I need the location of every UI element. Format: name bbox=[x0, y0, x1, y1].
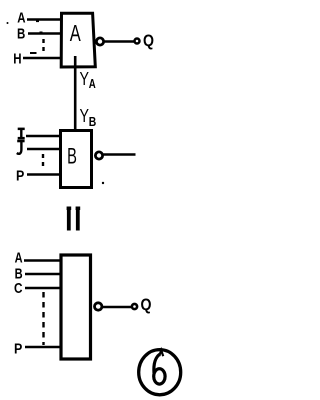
svg-text:C: C bbox=[14, 281, 23, 297]
wire Y connecting U1 bottom to U2 top bbox=[74, 56, 77, 139]
inverter bubble on U2 output bbox=[95, 152, 102, 159]
inverter bubble on U3 output bbox=[95, 303, 102, 310]
svg-text:Y: Y bbox=[80, 69, 90, 89]
wire input I to gate U2 bbox=[26, 135, 60, 138]
svg-text:B: B bbox=[17, 26, 25, 42]
svg-text:Y: Y bbox=[80, 106, 90, 126]
wire input P to gate U2 bbox=[27, 173, 60, 176]
ellipsis dashed line between J and P bbox=[42, 154, 44, 170]
svg-text:Q: Q bbox=[143, 31, 154, 50]
equivalence symbol bar 1 bbox=[67, 209, 71, 231]
ellipsis dashed line between C and P bbox=[42, 292, 44, 345]
equivalence symbol bar 2 bbox=[76, 209, 80, 231]
gate U3 box (combined) bbox=[61, 255, 91, 359]
wire input J to gate U2 bbox=[27, 148, 60, 151]
wire U3 output to Q node bbox=[103, 306, 132, 309]
svg-text:P: P bbox=[14, 342, 23, 358]
svg-text:P: P bbox=[16, 169, 25, 185]
svg-text:A: A bbox=[89, 76, 96, 91]
wire input A to gate U3 bbox=[24, 259, 61, 262]
pen blob on wire B bbox=[40, 32, 43, 35]
gate U1 box A bbox=[61, 13, 95, 67]
svg-text:A: A bbox=[17, 11, 26, 27]
svg-text:B: B bbox=[67, 144, 77, 169]
wire input C to gate U3 bbox=[25, 287, 61, 290]
ellipsis dashed line between B and H bbox=[42, 39, 44, 54]
wire input H to gate U1 bbox=[23, 57, 61, 60]
wire input B to gate U3 bbox=[25, 273, 61, 276]
input label J (gate U2) bbox=[17, 141, 25, 154]
svg-text:H: H bbox=[13, 52, 21, 68]
figure label letter b bbox=[154, 350, 165, 384]
svg-text:Q: Q bbox=[141, 295, 152, 314]
inverter bubble on U1 output bbox=[96, 38, 103, 45]
input label I (gate U2) bbox=[18, 128, 25, 140]
svg-text:A: A bbox=[70, 20, 81, 46]
figure label circle bbox=[139, 350, 181, 395]
pen blob on wire A bbox=[36, 20, 39, 23]
node terminal circle at Q (bottom) bbox=[132, 304, 137, 309]
node terminal circle at Q (top) bbox=[135, 39, 140, 44]
stray dot 1 bbox=[7, 22, 9, 24]
svg-text:A: A bbox=[15, 251, 23, 267]
gate U2 box B bbox=[61, 131, 92, 188]
wire U2 output stub bbox=[104, 153, 136, 156]
wire input A to gate U1 bbox=[27, 18, 61, 21]
wire input B to gate U1 bbox=[28, 32, 61, 35]
wire U1 output to Q node bbox=[105, 40, 135, 43]
svg-text:B: B bbox=[89, 114, 97, 129]
wire input P to gate U3 bbox=[25, 346, 61, 349]
stray dash near H bbox=[30, 52, 37, 54]
stray dot 2 bbox=[102, 182, 104, 184]
